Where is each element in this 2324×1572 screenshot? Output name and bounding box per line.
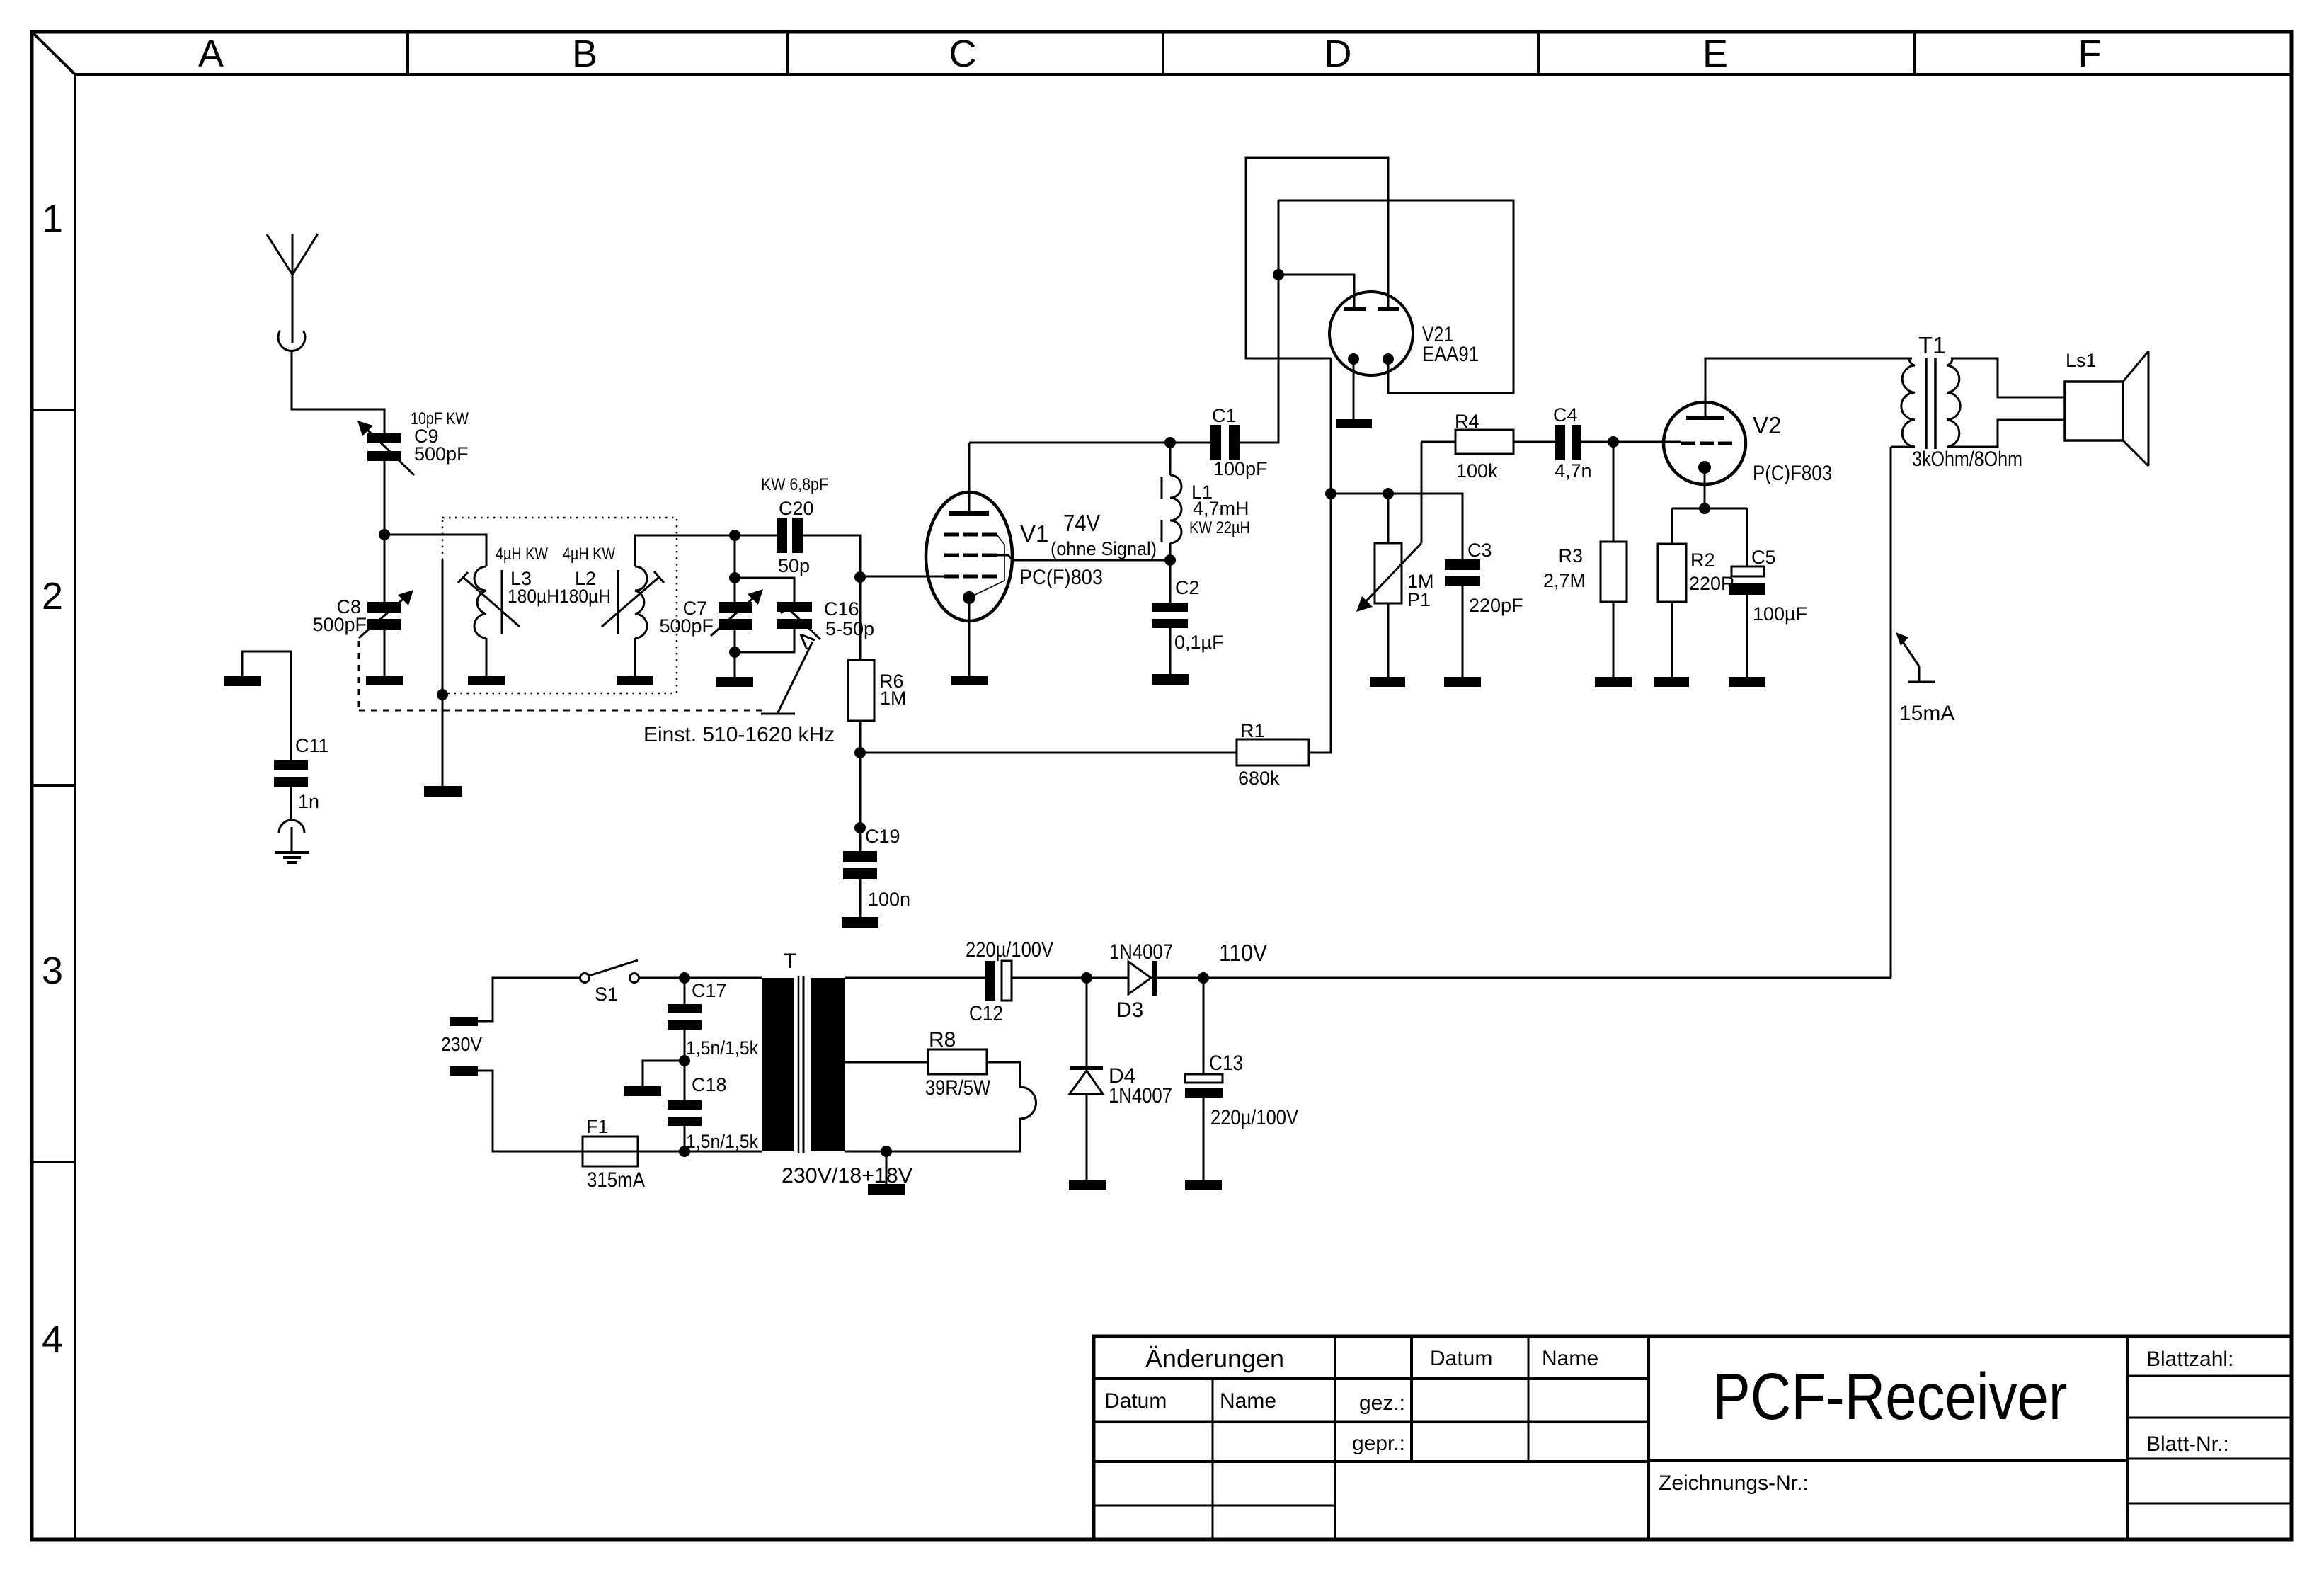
- ground bar under C8: [366, 676, 403, 685]
- capacitor C7 500pF variable: [659, 589, 763, 637]
- 230V input terminal bars: [441, 1017, 482, 1076]
- svg-text:Datum: Datum: [1430, 1347, 1492, 1370]
- title block right column left edge: [2126, 1336, 2129, 1539]
- ground bar at C17/C18 node: [624, 1086, 661, 1096]
- capacitor C20 50p: [761, 475, 828, 576]
- svg-text:1M: 1M: [880, 688, 907, 709]
- wire R6 to rail node: [859, 721, 862, 753]
- svg-text:Name: Name: [1220, 1389, 1276, 1413]
- wire center tap to R8: [845, 1061, 928, 1064]
- capacitor C18 1,5n/1,5k: [668, 1074, 758, 1152]
- svg-text:C17: C17: [692, 980, 727, 1001]
- wire C12 to D3 node: [1012, 977, 1128, 979]
- svg-text:220R: 220R: [1689, 573, 1735, 594]
- svg-text:P1: P1: [1407, 589, 1431, 610]
- svg-text:gepr.:: gepr.:: [1352, 1432, 1405, 1455]
- wire R3 to ground: [1613, 602, 1615, 677]
- fuse F1 315mA: [583, 1116, 645, 1192]
- wire S1 to transformer: [639, 977, 762, 979]
- svg-text:500pF: 500pF: [414, 443, 469, 465]
- svg-text:Ls1: Ls1: [2066, 350, 2097, 371]
- title block right row line 2: [2127, 1417, 2291, 1419]
- svg-text:EAA91: EAA91: [1422, 343, 1479, 366]
- svg-text:KW 22µH: KW 22µH: [1189, 518, 1250, 537]
- switch S1: [580, 960, 639, 1005]
- svg-text:315mA: 315mA: [587, 1168, 645, 1192]
- wire cathode node horizontal: [1672, 508, 1747, 510]
- wire C13 to ground: [1203, 1098, 1205, 1180]
- ground bar under V1: [951, 676, 988, 685]
- capacitor C16 5-50p trimmer: [777, 598, 874, 639]
- wire V2 anode to T1: [1705, 358, 1912, 416]
- svg-text:220µ/100V: 220µ/100V: [1210, 1106, 1298, 1129]
- wire R2 top: [1671, 508, 1673, 544]
- wire L2 to ground: [634, 638, 636, 676]
- wire C7 bottom node: [734, 630, 736, 677]
- node V21 left anode branch dot: [1273, 269, 1284, 280]
- wire detector node vertical: [1330, 358, 1332, 753]
- node C13 top dot: [1198, 972, 1209, 984]
- wire rail to R1: [860, 752, 1237, 754]
- transformer T primary bar: [762, 978, 794, 1151]
- wire C5 top: [1746, 508, 1748, 566]
- capacitor C3 220pF: [1445, 540, 1523, 616]
- row separator 1/2: [32, 409, 75, 411]
- transformer T1 primary winding: [1891, 332, 1946, 447]
- wire C5 to ground: [1746, 595, 1748, 677]
- wire C4 to V2 grid: [1581, 441, 1681, 443]
- wire V1 g2 to L1 node: [997, 555, 1170, 560]
- wire rail node down to C19: [859, 753, 862, 851]
- title block left table row line 2: [1094, 1505, 1335, 1507]
- node C17 top dot: [679, 972, 690, 984]
- inductor L1 4,7mH: [1162, 443, 1250, 560]
- 110V rail wire: [1203, 977, 1891, 979]
- wire C16 bottom to C7 bottom node: [735, 629, 794, 652]
- svg-text:4µH KW: 4µH KW: [496, 545, 548, 564]
- ground bar under V21 cathode: [1336, 419, 1372, 428]
- svg-text:Datum: Datum: [1104, 1389, 1167, 1413]
- svg-text:C4: C4: [1553, 404, 1578, 426]
- svg-text:4µH KW: 4µH KW: [563, 545, 615, 564]
- svg-text:R4: R4: [1455, 411, 1479, 432]
- svg-text:39R/5W: 39R/5W: [925, 1076, 991, 1100]
- svg-text:P(C)F803: P(C)F803: [1753, 462, 1832, 485]
- node B junction dot (C20/C7 node): [729, 530, 740, 541]
- wire C20 to grid node: [803, 535, 860, 577]
- svg-text:3kOhm/8Ohm: 3kOhm/8Ohm: [1912, 448, 2022, 471]
- row separator 3/4: [32, 1161, 75, 1163]
- ground bar under L3: [468, 676, 505, 685]
- capacitor C19 100n: [843, 826, 910, 910]
- wire D3 to C13 node: [1157, 977, 1203, 979]
- wire L2 top to C20 node: [635, 535, 735, 566]
- svg-text:C16: C16: [824, 598, 859, 620]
- wire P1 wiper to R4: [1421, 442, 1423, 543]
- svg-text:5-50p: 5-50p: [825, 618, 874, 639]
- ground bar under L2: [617, 676, 653, 685]
- svg-text:D: D: [1324, 33, 1352, 75]
- svg-text:1,5n/1,5k: 1,5n/1,5k: [686, 1131, 758, 1152]
- wire R3 top: [1613, 442, 1615, 542]
- svg-text:100n: 100n: [868, 889, 910, 910]
- wire D4 to ground: [1086, 1094, 1088, 1180]
- svg-text:180µH180µH: 180µH180µH: [508, 586, 611, 607]
- title block Zeichnungs-Nr box line: [1649, 1459, 2127, 1462]
- svg-text:0,1µF: 0,1µF: [1174, 632, 1224, 653]
- svg-text:680k: 680k: [1238, 768, 1280, 789]
- svg-text:74V: 74V: [1063, 510, 1100, 536]
- gang pointer line: [777, 642, 813, 714]
- wire R4 to C4: [1513, 441, 1555, 443]
- svg-text:C1: C1: [1212, 405, 1237, 426]
- wire D4 top: [1086, 978, 1088, 1066]
- svg-text:(ohne Signal): (ohne Signal): [1051, 538, 1157, 559]
- capacitor C13 220u/100V electrolytic: [1185, 1052, 1298, 1129]
- svg-text:gez.:: gez.:: [1359, 1391, 1405, 1415]
- svg-text:1N4007: 1N4007: [1109, 1084, 1172, 1107]
- wire C18 bottom: [684, 1126, 686, 1151]
- wire branch to C16 top: [735, 578, 794, 602]
- svg-text:KW 6,8pF: KW 6,8pF: [761, 475, 828, 494]
- title block title box left edge: [1647, 1336, 1650, 1539]
- svg-text:1n: 1n: [298, 791, 319, 812]
- antenna: [267, 234, 318, 343]
- capacitor C17 1,5n/1,5k: [668, 980, 758, 1059]
- tuning gang dotted box: [442, 518, 677, 693]
- title block row line thick: [1094, 1460, 1649, 1463]
- wire detector node to C3: [1331, 494, 1462, 559]
- node on gang wire: [437, 689, 448, 700]
- wire V1 cathode to ground: [968, 603, 971, 676]
- node L1 bottom junction dot: [1164, 554, 1176, 566]
- transformer T1 core: [1926, 358, 1935, 449]
- wire to V21 left anode: [1278, 275, 1354, 307]
- svg-text:3: 3: [42, 950, 63, 992]
- node L1 top junction dot: [1164, 437, 1176, 448]
- svg-text:C3: C3: [1467, 540, 1492, 561]
- triode-pentode V1 PC(F)803: [926, 492, 1157, 621]
- loudspeaker Ls1: [2065, 350, 2148, 466]
- svg-text:F: F: [2078, 33, 2102, 75]
- wire antenna to C9: [292, 351, 384, 433]
- ground bar under C3: [1444, 677, 1481, 687]
- ground bar under C7: [716, 677, 753, 687]
- svg-text:C19: C19: [865, 826, 900, 847]
- svg-text:C: C: [949, 33, 977, 75]
- ground bar under R2: [1654, 677, 1689, 687]
- wire node to ground stub: [643, 1061, 685, 1086]
- wire grid node to R6: [859, 577, 862, 660]
- svg-text:C2: C2: [1175, 577, 1200, 598]
- node rail junction dot: [854, 747, 866, 758]
- ground bar under P1: [1370, 677, 1405, 687]
- title block Aenderungen header cell: [1094, 1336, 1649, 1539]
- node detector junction dot: [1325, 488, 1336, 499]
- earth stem: [291, 827, 293, 852]
- svg-text:R3: R3: [1558, 545, 1583, 566]
- svg-text:R1: R1: [1240, 720, 1265, 741]
- svg-text:C11: C11: [295, 735, 329, 756]
- wire V1 anode up to rail: [968, 443, 971, 511]
- svg-text:Zeichnungs-Nr.:: Zeichnungs-Nr.:: [1659, 1471, 1809, 1495]
- wire T1 secondary top to Ls1: [1951, 358, 2065, 397]
- transformer T labels: [782, 950, 912, 1187]
- node A junction dot: [379, 529, 390, 540]
- svg-text:C12: C12: [969, 1002, 1003, 1025]
- svg-text:V2: V2: [1753, 412, 1781, 438]
- svg-text:Blattzahl:: Blattzahl:: [2146, 1348, 2233, 1371]
- wire V21 right anode loop: [1246, 158, 1388, 358]
- capacitor C12 220u/100V electrolytic: [966, 938, 1053, 1025]
- svg-text:2: 2: [42, 575, 63, 617]
- capacitor C1 100pF: [1210, 405, 1268, 479]
- title block gez column divider: [1410, 1336, 1413, 1462]
- wire F1 to transformer: [638, 1151, 762, 1153]
- wire C9 to node A: [384, 461, 386, 535]
- gang common wire to ground: [442, 560, 444, 786]
- potentiometer P1 1M: [1356, 543, 1434, 612]
- title block right row line 3: [2127, 1503, 2291, 1505]
- capacitor C5 100uF electrolytic: [1729, 547, 1807, 625]
- svg-text:230V: 230V: [441, 1033, 482, 1055]
- gang pointer bar: [761, 713, 795, 715]
- diode D3 1N4007: [1109, 940, 1173, 1022]
- node secondary bottom dot: [881, 1146, 892, 1157]
- wire C13 top: [1203, 978, 1205, 1074]
- transformer T secondary bar: [811, 978, 845, 1151]
- wire secondary top to C12: [845, 977, 985, 979]
- ground bar under C2: [1152, 674, 1189, 685]
- wire L3 to ground: [486, 638, 488, 676]
- node C18 bottom dot: [679, 1146, 690, 1157]
- svg-text:220µ/100V: 220µ/100V: [966, 938, 1053, 962]
- node V2 cathode dot: [1699, 503, 1710, 514]
- wire P1 to ground: [1387, 603, 1390, 677]
- inductor L2 180uH: [508, 545, 664, 638]
- svg-text:500pF: 500pF: [659, 615, 714, 637]
- column separator A/B: [406, 32, 409, 74]
- ground bar under C13: [1185, 1180, 1222, 1190]
- gang dashed link line: [359, 641, 767, 710]
- wire node A to L3: [384, 535, 486, 566]
- svg-text:D3: D3: [1116, 998, 1143, 1022]
- svg-text:T1: T1: [1918, 332, 1946, 358]
- wire grid node to V1 g1: [860, 576, 944, 578]
- column separator E/F: [1913, 32, 1916, 74]
- node C7 bottom junction dot: [729, 647, 740, 658]
- wire T1 secondary bottom to Ls1: [1947, 420, 2065, 447]
- wire V21 anode loop upper: [1278, 200, 1513, 393]
- transformer T1 secondary winding: [1912, 358, 2022, 471]
- ground bar under D4: [1069, 1180, 1106, 1190]
- earth dome arc: [279, 820, 304, 833]
- svg-text:R8: R8: [929, 1028, 956, 1052]
- gang pointer arrowhead: [801, 634, 815, 649]
- node above C19 dot: [854, 822, 866, 833]
- capacitor C4 4,7n: [1553, 404, 1592, 482]
- svg-text:PCF-Receiver: PCF-Receiver: [1713, 1360, 2068, 1433]
- node P1 top dot: [1383, 488, 1394, 499]
- svg-text:100k: 100k: [1456, 460, 1498, 482]
- resistor R1 680k: [1237, 720, 1309, 789]
- wire C1 to V21 riser: [1240, 200, 1278, 443]
- svg-text:E: E: [1702, 33, 1728, 75]
- diode D4 1N4007: [1070, 1064, 1172, 1107]
- svg-text:Name: Name: [1542, 1347, 1598, 1370]
- svg-text:C13: C13: [1209, 1052, 1243, 1075]
- inductor L3 180uH: [458, 545, 548, 638]
- node between C17 C18 dot: [679, 1055, 690, 1066]
- title block Blattzahl row line: [2127, 1375, 2291, 1377]
- node D4 top dot: [1081, 972, 1092, 984]
- svg-text:F1: F1: [586, 1116, 609, 1137]
- svg-text:100pF: 100pF: [1213, 458, 1268, 479]
- wire 230V neutral to F1: [478, 1071, 583, 1151]
- wire R2 to ground: [1671, 602, 1673, 677]
- wire C11 branch: [242, 651, 291, 760]
- capacitor C2 0,1uF: [1152, 577, 1224, 653]
- terminal bar left of C11: [224, 676, 261, 686]
- column separator B/C: [786, 32, 789, 74]
- svg-text:15mA: 15mA: [1899, 702, 1954, 725]
- svg-text:Blatt-Nr.:: Blatt-Nr.:: [2146, 1433, 2229, 1456]
- capacitor C8 500pF variable: [312, 590, 413, 638]
- wire C3 to ground: [1462, 586, 1464, 677]
- title block Blatt-Nr row line: [2127, 1458, 2291, 1460]
- wire T1 primary bottom riser to 110V rail: [1890, 447, 1892, 978]
- node grid junction dot: [854, 571, 866, 583]
- wire node to C2: [1169, 560, 1172, 603]
- svg-text:2,7M: 2,7M: [1543, 570, 1586, 591]
- frame header band line: [75, 73, 2291, 76]
- resistor R2 220R: [1658, 544, 1735, 602]
- wire anode rail: [969, 442, 1210, 444]
- svg-text:500pF: 500pF: [312, 614, 367, 635]
- capacitor C9 500pF variable: [357, 409, 469, 475]
- wire C17 to C18 node: [684, 1030, 686, 1100]
- svg-text:T: T: [784, 950, 796, 973]
- svg-text:Einst. 510-1620 kHz: Einst. 510-1620 kHz: [643, 723, 835, 746]
- wire R1 to V21 branch vertical: [1309, 358, 1331, 753]
- wire node B to C20: [735, 535, 777, 537]
- wire C8 to ground: [384, 630, 386, 676]
- svg-text:110V: 110V: [1219, 940, 1267, 966]
- wire C2 to ground: [1169, 628, 1172, 674]
- wire C17 top: [684, 978, 686, 1004]
- svg-text:S1: S1: [595, 984, 618, 1005]
- svg-text:1N4007: 1N4007: [1109, 940, 1173, 964]
- resistor R4 100k: [1455, 411, 1513, 482]
- ground bar under gang wire: [424, 786, 462, 797]
- svg-text:1,5n/1,5k: 1,5n/1,5k: [686, 1037, 758, 1059]
- title block left table Datum/Name divider: [1212, 1379, 1214, 1539]
- wire to R4: [1421, 441, 1455, 443]
- svg-text:C20: C20: [779, 498, 814, 519]
- svg-text:220pF: 220pF: [1469, 595, 1523, 616]
- ground bar under secondary: [868, 1184, 905, 1195]
- wire node B down to C7: [734, 535, 736, 602]
- title block middle Datum/Name divider: [1528, 1336, 1530, 1462]
- wire V21 left cathode down: [1353, 364, 1355, 419]
- svg-text:PC(F)803: PC(F)803: [1019, 566, 1103, 589]
- node C16 top branch dot: [729, 572, 740, 583]
- wire 230V live to S1: [478, 978, 580, 1021]
- earth ground symbol: [275, 853, 309, 862]
- svg-text:4,7mH: 4,7mH: [1193, 498, 1249, 519]
- wire P1 top: [1387, 494, 1390, 543]
- column separator D/E: [1537, 32, 1540, 74]
- wire C11 to earth: [290, 787, 292, 820]
- ground bar under C5: [1729, 677, 1765, 687]
- title block left table row line 1: [1094, 1421, 1649, 1423]
- svg-text:C5: C5: [1751, 547, 1776, 568]
- current arrow 15mA: [1896, 632, 1954, 725]
- svg-text:1: 1: [42, 198, 63, 240]
- resistor R3 2,7M: [1543, 542, 1627, 602]
- wire R8 loop with hop: [845, 1062, 1036, 1151]
- row separator 2/3: [32, 784, 75, 787]
- svg-text:V1: V1: [1020, 520, 1048, 547]
- svg-text:A: A: [198, 33, 224, 75]
- svg-text:100µF: 100µF: [1753, 603, 1807, 625]
- wire V2 cathode down: [1704, 473, 1706, 508]
- transformer T core lines: [798, 976, 803, 1153]
- double diode V21 EAA91: [1329, 292, 1479, 375]
- triode V2 P(C)F803: [1664, 402, 1832, 485]
- resistor R6 1M: [848, 660, 907, 721]
- svg-text:50p: 50p: [778, 555, 810, 576]
- ground bar under C19: [842, 917, 878, 928]
- title block outer: [1094, 1336, 2291, 1539]
- capacitor C11 1n: [274, 735, 329, 812]
- svg-text:4,7n: 4,7n: [1555, 460, 1592, 482]
- ground bar under R3: [1595, 677, 1632, 687]
- frame left band line: [74, 74, 76, 1539]
- svg-text:C18: C18: [692, 1074, 727, 1095]
- column separator C/D: [1162, 32, 1164, 74]
- wire node A to C8: [384, 535, 386, 602]
- wire secondary bottom to ground: [886, 1151, 888, 1184]
- svg-text:4: 4: [42, 1318, 63, 1361]
- svg-text:B: B: [572, 33, 597, 75]
- svg-text:Änderungen: Änderungen: [1145, 1344, 1284, 1373]
- antenna plug coupling arc: [278, 331, 305, 351]
- node R3 top dot: [1608, 436, 1619, 448]
- wire C19 to ground: [859, 879, 862, 917]
- frame corner diagonal: [33, 33, 75, 74]
- svg-text:R2: R2: [1690, 549, 1715, 571]
- resistor R8 39R/5W: [925, 1028, 991, 1100]
